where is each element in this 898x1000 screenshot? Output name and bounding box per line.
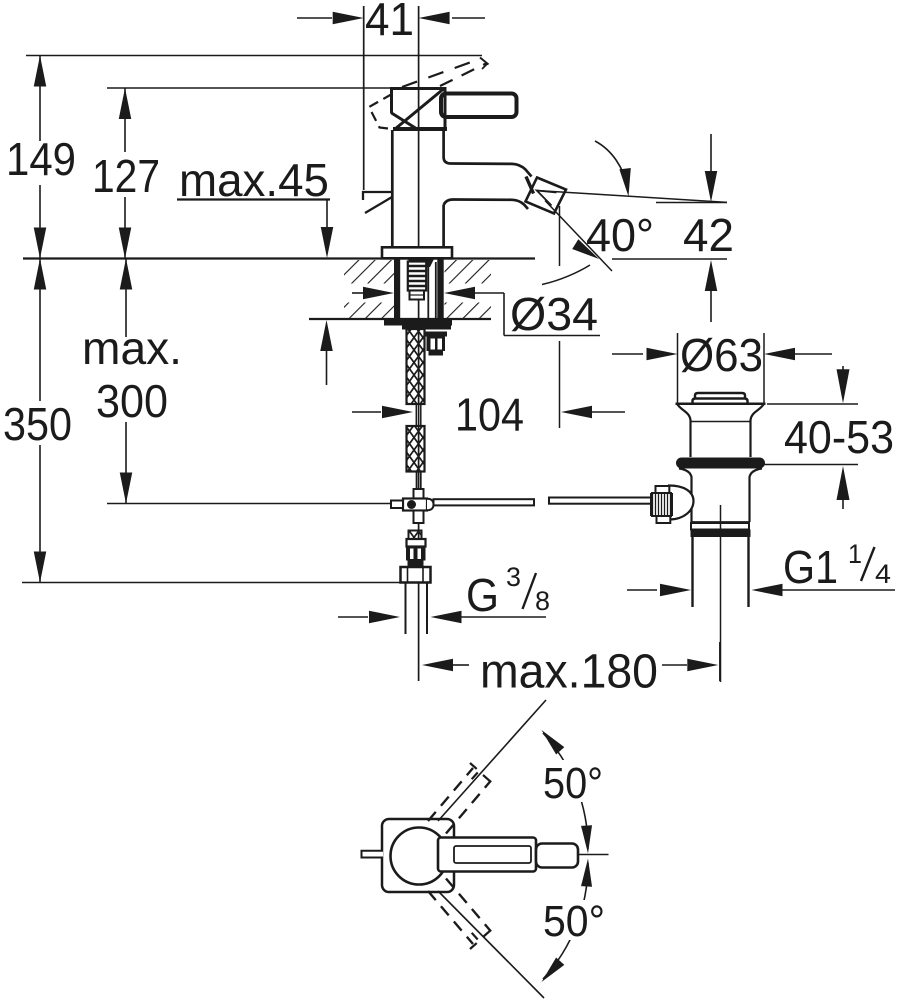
- plan view left tab: [362, 851, 384, 858]
- svg-text:127: 127: [92, 150, 160, 202]
- upper 50deg text: [538, 760, 610, 802]
- braided hose lower segment: [407, 426, 425, 472]
- aerator tilted body: [526, 178, 567, 214]
- svg-text:max.: max.: [82, 322, 182, 374]
- dim 104 extension line: [559, 341, 561, 428]
- left small tab on body: [363, 192, 392, 200]
- hatch interruption white band right: [444, 284, 491, 303]
- dim Ø63 right arrow: [764, 348, 795, 361]
- dim 40-53 top arrow: [842, 366, 844, 374]
- drain body bottom line: [692, 521, 750, 523]
- svg-text:G1: G1: [783, 541, 838, 593]
- counter hatch left block: [344, 260, 395, 318]
- max.300 reference line (hose depth): [107, 503, 403, 505]
- base plate of faucet: [382, 247, 452, 258]
- dim 42 upper reference line: [656, 202, 727, 204]
- dim max.180 right extension line: [719, 642, 721, 681]
- svg-text:Ø34: Ø34: [510, 288, 598, 340]
- 40 deg arc lower with arrowhead: [542, 265, 590, 285]
- dim 41 left extension line: [363, 6, 365, 190]
- svg-text:max.45: max.45: [179, 154, 329, 206]
- plan view centerline right: [578, 854, 609, 856]
- plan view lower 50deg solid line: [438, 891, 544, 998]
- drain union ring: [691, 523, 749, 530]
- faucet raised lever dashed lines: [402, 59, 481, 88]
- dim 40-53 bottom reference line: [764, 464, 858, 466]
- drain body below seal: [679, 469, 692, 523]
- dim 104 right arrow: [561, 406, 592, 419]
- mounting nut on stud: [425, 332, 448, 337]
- dim 41 left arrow: [297, 17, 332, 19]
- svg-text:G: G: [466, 569, 499, 621]
- drain bell left side: [678, 405, 691, 458]
- drain tailpipe walls: [691, 537, 693, 607]
- svg-text:1: 1: [848, 539, 862, 569]
- plan view lever inner outline: [454, 846, 531, 863]
- handle bottom thick line: [393, 127, 447, 131]
- upper 50deg arc with arrowheads: [543, 733, 588, 849]
- faucet centerline: [418, 6, 420, 681]
- max.45 leader arrow down to counter top: [326, 200, 328, 241]
- lower 50deg arc with arrowheads: [543, 863, 588, 979]
- spout outline top: [444, 157, 532, 177]
- counter hatch right block: [445, 260, 492, 318]
- faucet body left edge: [391, 130, 394, 248]
- 350 reference line bottom: [22, 582, 400, 584]
- mounting hole right wall: [437, 259, 443, 320]
- svg-text:4: 4: [875, 559, 891, 589]
- washer plate under counter: [384, 319, 452, 326]
- faucet body right edge upper: [442, 130, 445, 157]
- lower 50deg text: [538, 900, 612, 940]
- svg-text:300: 300: [96, 375, 168, 427]
- plan view handle circle: [391, 828, 448, 885]
- connector collar: [407, 539, 426, 547]
- spout outline bottom: [444, 200, 528, 210]
- drain centerline: [720, 505, 722, 682]
- mounting hole left wall: [394, 259, 400, 320]
- svg-text:104: 104: [455, 389, 524, 441]
- dim 149 line with arrows: [39, 56, 41, 142]
- braided hose upper segment: [407, 329, 425, 404]
- mounting stud lines: [427, 262, 429, 319]
- fitting left stub: [391, 501, 403, 509]
- pop-up cross fitting block: [403, 499, 427, 511]
- svg-text:Ø63: Ø63: [680, 329, 763, 381]
- plan view lever outer: [438, 838, 536, 872]
- reference line top of handle body (127): [107, 87, 392, 89]
- dim 104 extension line upper segment: [559, 206, 561, 266]
- plan view lever tip: [536, 844, 578, 868]
- thin tube below hose: [416, 472, 418, 490]
- drain body black ring: [691, 530, 751, 538]
- dim max.180 right arrow: [662, 664, 687, 666]
- dim Ø63 left extension line: [677, 333, 679, 403]
- svg-text:40°: 40°: [586, 209, 654, 261]
- knurled knob top cap: [656, 486, 670, 493]
- shank cartridge threaded: [408, 262, 426, 291]
- drain flange top line: [676, 402, 766, 405]
- reference line top of faucet (149): [26, 55, 482, 57]
- handle cap diagonal: [395, 89, 444, 130]
- dim G1 1/4 right arrow: [752, 584, 783, 597]
- plan view upper dashed lever outline: [428, 768, 473, 821]
- raised lever tip solid stroke: [480, 58, 489, 65]
- dim 42 top arrow: [710, 134, 712, 172]
- svg-text:42: 42: [683, 209, 734, 261]
- hex nut G3/8: [401, 567, 431, 583]
- plan view lower dashed lever outline: [428, 891, 473, 944]
- pop-up cross fitting top stub: [414, 489, 424, 499]
- 40 deg arc upper with arrowhead: [595, 141, 628, 188]
- dim G3/8 left arrow: [338, 616, 368, 618]
- svg-text:41: 41: [365, 0, 414, 45]
- counter top line right segment (42 lower reference): [612, 258, 727, 260]
- second washer: [402, 326, 451, 330]
- drain plug cap: [695, 393, 745, 399]
- spray axis thin line to 42 reference: [537, 191, 727, 203]
- hose break inner tube: [415, 404, 417, 426]
- dim 40-53 bottom arrow: [837, 466, 850, 500]
- fitting bottom stub: [414, 511, 424, 524]
- dim G1 1/4 left arrow: [627, 589, 657, 591]
- pop-up rod left segment: [434, 499, 535, 505]
- dim Ø34 right arrow and leader: [444, 287, 475, 300]
- knurled knob bottom cap: [657, 516, 671, 523]
- handle cap chamfer line: [392, 113, 418, 129]
- dim max.300 line with arrows: [125, 259, 127, 337]
- connector ring: [408, 561, 424, 568]
- drain bell neck line: [691, 421, 751, 423]
- pop-up rod right segment: [549, 498, 651, 504]
- aerator spray arrow head: [537, 191, 557, 206]
- plan view upper 50deg solid line: [438, 700, 546, 821]
- drain rubber seal: [676, 458, 765, 469]
- svg-text:max.180: max.180: [480, 646, 658, 699]
- handle lever bar: [441, 94, 517, 118]
- max.45 lower arrow up to counter bottom: [320, 320, 333, 351]
- dim 41 right arrow: [452, 17, 485, 19]
- dim 42 bottom arrow: [705, 260, 718, 291]
- dim max.180 left arrow: [422, 659, 453, 672]
- svg-text:50°: 50°: [543, 759, 603, 808]
- aerator joint line: [526, 177, 534, 194]
- dim 104 left arrow: [352, 411, 381, 413]
- faucet body right edge lower: [442, 205, 445, 248]
- fitting right cap: [427, 499, 434, 511]
- supply pipe walls: [405, 583, 407, 635]
- svg-text:8: 8: [535, 586, 550, 616]
- svg-text:3: 3: [506, 562, 521, 592]
- counter top surface line: [23, 257, 535, 259]
- hatch interruption white band left: [344, 284, 395, 303]
- connector slotted body: [406, 547, 426, 561]
- dim G3/8 right arrow: [431, 611, 462, 624]
- rod hub boss on drain body: [669, 486, 694, 520]
- faucet handle dashed raised cap outline: [369, 94, 392, 129]
- dim Ø63 right extension line: [763, 333, 765, 403]
- hose crimp crosshatch piece: [409, 531, 422, 540]
- pivot ball: [407, 500, 416, 509]
- plan view square base: [382, 819, 454, 892]
- dim Ø63 left arrow: [612, 353, 643, 355]
- dim Ø34 underline: [504, 335, 600, 337]
- knurled knob body: [651, 493, 672, 516]
- svg-text:40-53: 40-53: [784, 411, 894, 463]
- spray direction 40 deg line: [545, 201, 612, 272]
- handle cap body: [392, 89, 446, 129]
- drain bell right side: [751, 405, 764, 458]
- counter bottom line: [309, 318, 491, 320]
- svg-text:149: 149: [6, 133, 76, 185]
- dim Ø34 left arrow: [352, 292, 363, 294]
- dark anchor under base plate: [408, 259, 434, 267]
- svg-text:350: 350: [3, 398, 72, 450]
- shank cartridge lower: [410, 291, 425, 300]
- dim 350 line with arrows: [39, 259, 41, 401]
- svg-text:50°: 50°: [543, 897, 605, 946]
- handle cap right edge restroke: [444, 89, 447, 130]
- dim 40-53 top reference line: [767, 403, 858, 405]
- dim 127 line with arrows: [124, 88, 126, 152]
